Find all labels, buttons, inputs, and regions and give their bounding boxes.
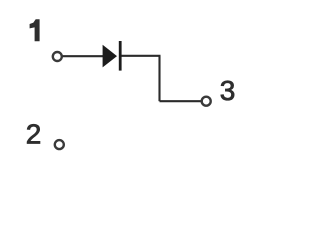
pin 2 terminal circle (no connect) bbox=[55, 140, 64, 149]
svg-text:2: 2 bbox=[26, 119, 42, 150]
diode D1 triangle (anode) bbox=[103, 45, 117, 68]
pin 1 terminal circle bbox=[53, 52, 62, 61]
wire from pin 1 to diode anode bbox=[63, 55, 103, 57]
wire from cathode to corner bbox=[122, 55, 161, 57]
diode D1 cathode bar bbox=[119, 41, 122, 71]
pin 3 terminal circle bbox=[202, 97, 211, 106]
svg-text:3: 3 bbox=[220, 75, 236, 106]
bottom horizontal wire to pin 3 bbox=[160, 100, 202, 102]
pin label 1 bbox=[30, 20, 39, 41]
vertical wire segment bbox=[158, 56, 160, 101]
